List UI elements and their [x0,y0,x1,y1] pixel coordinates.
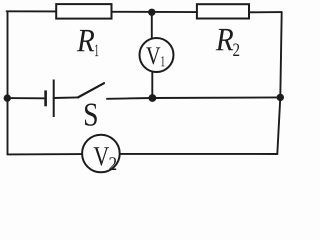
wire bottom left segment [8,153,82,155]
battery cell: long positive plate [53,80,55,118]
node C junction dot (middle, below V1) [149,94,157,102]
resistor R1 [56,4,111,19]
label R1 [77,30,95,51]
wire middle right segment [152,96,280,99]
wire right vertical [277,12,281,154]
wire top middle segment [112,11,197,13]
label V1 [146,47,160,64]
wire left vertical [7,11,9,154]
resistor R2 [197,4,249,18]
wire switch contact to node B [107,97,152,100]
wire top right segment [249,11,282,13]
node A junction dot (left middle) [4,94,11,101]
wire V1 stem bottom [151,72,153,98]
switch S blade [78,83,104,97]
wire battery to switch [54,96,78,99]
label S [85,104,97,126]
node B junction dot (top, between R1 and R2) [148,9,155,16]
node D junction dot (right middle) [277,94,284,101]
voltmeter V1 circle [140,38,174,72]
wire bottom right segment [121,153,278,155]
label R2 [216,29,234,50]
wire V1 stem top [151,12,153,38]
label V2 [94,147,109,166]
wire top left segment [7,10,57,12]
voltmeter V2 circle [82,135,120,173]
battery cell: short negative plate [44,90,47,106]
wire middle left segment [7,97,44,99]
